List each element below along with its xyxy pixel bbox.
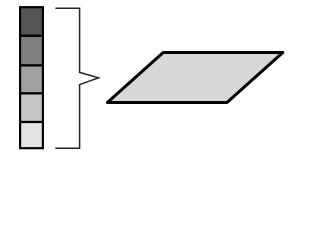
right curly brace <box>55 8 98 148</box>
parallelogram <box>107 53 282 103</box>
swatch cell 2 <box>20 36 43 66</box>
swatch cell 4 <box>20 93 43 122</box>
swatch cell 3 <box>20 65 43 93</box>
swatch cell 5 (lightest) <box>20 122 43 148</box>
swatch cell 1 (darkest) <box>20 7 43 36</box>
